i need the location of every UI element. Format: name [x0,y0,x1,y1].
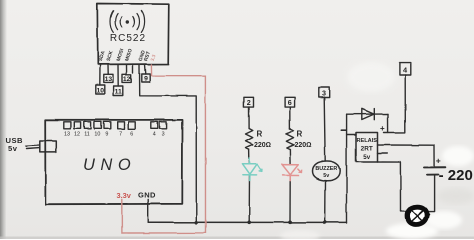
left page edge shadow [0,0,7,239]
svg-text:3: 3 [322,89,326,98]
svg-text:RC522: RC522 [110,33,146,44]
svg-text:2: 2 [247,98,251,107]
wire pin4 to relay plus [384,75,405,133]
white-out blob above relay [347,62,395,92]
UNO header pin 10 [94,122,101,129]
svg-text:5v: 5v [363,154,370,161]
wire lock left stub [401,210,408,212]
svg-text:11: 11 [84,132,90,138]
riser bus to relay minus [346,114,348,222]
white-out blob far bottom-right [280,230,320,240]
buzzer BZ1 body [312,161,340,181]
junction dot RC522 GND [195,221,199,225]
svg-text:220Ω: 220Ω [254,142,271,149]
Arduino UNO A1 body [45,120,182,204]
svg-text:5v: 5v [323,173,329,179]
node box 10 [96,85,105,94]
svg-text:220Ω: 220Ω [295,142,312,149]
svg-text:6: 6 [130,132,133,138]
node box 12 [122,75,131,83]
RC522 antenna symbol [110,11,145,33]
wire D1 to bus [248,176,250,223]
resistor R2 zigzag [286,129,293,150]
wire pin2 to R1 [248,107,250,128]
wire buzzer to bus [324,181,326,223]
wire R1 to LED D1 [248,150,250,164]
node box 4 (relay pin) [399,63,410,75]
pin MISO stub [126,65,128,75]
wire D2 to bus [289,176,291,222]
svg-text:+: + [436,156,441,166]
pin SDA stub [99,65,101,86]
USB connector [40,141,57,152]
svg-text:BUZZER: BUZZER [315,166,337,172]
battery BT1 minus plate [427,174,438,176]
svg-text:GND: GND [138,191,156,200]
UNO header pin numbers [64,132,165,138]
wire UNO GND down [147,200,149,223]
svg-text:3.3v: 3.3v [117,191,132,200]
svg-text:12: 12 [74,132,80,138]
green LED D1 [242,158,262,181]
wire diode to relay plus [387,114,389,132]
svg-text:10: 10 [97,87,105,94]
USB wires [26,144,40,147]
svg-text:11: 11 [115,88,122,95]
svg-text:10: 10 [94,132,100,138]
wire R2 to LED D2 [289,150,291,164]
svg-text:6: 6 [288,98,292,107]
pin MOSI stub [117,65,119,87]
UNO header pin 7 [117,122,124,129]
node box 2 (green LED pin) [244,97,254,107]
UNO header pin 13 [64,122,71,129]
UNO header pin 12 [74,122,81,129]
ground bus [148,221,346,223]
junction dot buzzer column [323,221,327,225]
wire RC522 GND to ground bus [140,65,197,223]
wire battery minus to lock [427,176,435,212]
red LED D2 [282,164,302,181]
svg-text:13: 13 [105,76,113,83]
UNO header pin 4 [151,122,158,129]
gray smudge right-bottom [437,188,474,204]
relay contact wire to lock [378,162,401,211]
battery BT1 plus plate [424,166,446,168]
stub riser to relay left [347,134,356,136]
white-out blob right of lock [426,211,462,229]
resistor R1 zigzag [246,129,253,150]
svg-text:- 220: - 220 [439,167,473,184]
svg-text:UNO: UNO [83,156,136,174]
svg-text:R: R [257,130,263,139]
svg-text:5v: 5v [8,144,18,153]
node box 6 (red LED pin) [285,97,295,107]
RC522 pin labels [98,48,152,63]
junction dot green LED column [247,221,251,225]
svg-text:9: 9 [105,132,108,138]
svg-text:13: 13 [64,132,70,138]
svg-text:7: 7 [119,132,122,138]
node box digits 10 13 11 12 9 [97,76,149,96]
white-out blob below lock [386,223,438,239]
relay K1 body [356,133,378,163]
USB label [6,136,24,153]
wire pin3 to buzzer [324,98,325,162]
red 3.3V wire RC522 to UNO [122,65,206,234]
lock M1 (circle with cross) [407,207,427,224]
wire pin6 to R2 [289,107,291,128]
relay contact stub NC [378,153,388,155]
pin RST stub [144,65,147,75]
svg-text:+: + [380,124,385,133]
pin SCK stub [107,65,109,75]
diode D3 cathode bar [373,109,375,120]
white-out blob right of battery [442,146,474,166]
UNO header pin 11 [84,122,91,129]
junction dot red LED column [288,221,292,225]
diode D3 triangle [362,109,374,120]
svg-text:R: R [297,130,303,139]
svg-text:9: 9 [144,76,148,83]
svg-text:3: 3 [162,132,165,138]
UNO header pin 3 [160,122,167,129]
bottom page edge [0,237,474,240]
pin IRQ stub [132,65,134,74]
svg-text:4: 4 [153,132,156,138]
UNO header pin 6 [128,122,135,129]
flyback diode D3 wire [347,113,388,115]
RC522 module U1 body [97,4,169,65]
node box 11 [114,86,123,95]
svg-text:12: 12 [123,76,131,83]
svg-text:RELAIS: RELAIS [356,138,377,144]
node box 9 [142,74,150,82]
node box 13 [104,75,113,83]
relay contact wire to battery plus [378,145,435,166]
relay minus sign [341,129,346,131]
svg-text:2RT: 2RT [361,146,373,153]
UNO header pin 9 [104,122,111,129]
node box 3 (buzzer pin) [319,88,329,98]
